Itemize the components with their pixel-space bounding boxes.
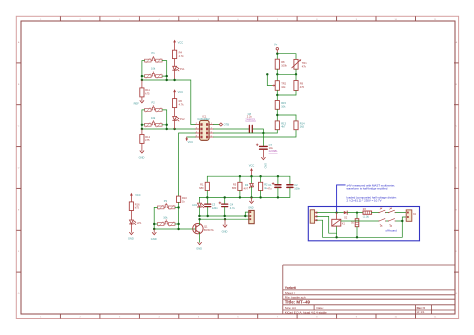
- svg-text:LD1: LD1: [192, 203, 197, 207]
- svg-text:R13: R13: [281, 121, 286, 125]
- svg-text:47u: 47u: [267, 187, 272, 191]
- junction dots block3: [153, 223, 155, 225]
- svg-text:REF: REF: [134, 101, 140, 105]
- junction dots block2: [141, 124, 143, 126]
- wire: [174, 59, 176, 67]
- svg-text:4.7k: 4.7k: [179, 102, 185, 106]
- op-amp IC1 body: [200, 120, 210, 140]
- svg-text:2N6822L: 2N6822L: [245, 118, 256, 122]
- wire block1 right rail: [162, 61, 167, 80]
- wire block2 right rail: [162, 110, 167, 129]
- svg-text:C4: C4: [230, 202, 234, 206]
- IC1 pin 1: [209, 124, 213, 126]
- svg-text:680: 680: [232, 186, 237, 190]
- svg-text:GND: GND: [128, 237, 134, 241]
- svg-text:S2: S2: [390, 208, 392, 210]
- svg-text:R8: R8: [281, 60, 285, 64]
- svg-text:VCC: VCC: [178, 40, 184, 44]
- ground GND below Q1: [198, 242, 202, 244]
- wire block3 bottom row to Q1 base: [154, 228, 196, 230]
- svg-text:120n: 120n: [212, 206, 218, 210]
- svg-text:R9: R9: [300, 81, 304, 85]
- svg-text:R1: R1: [200, 183, 204, 187]
- wire switches to X2 pin1: [396, 212, 406, 214]
- LED PL2: [173, 116, 177, 120]
- svg-text:Date:: Date:: [317, 306, 324, 310]
- resistor R4: [173, 50, 177, 58]
- connector X2: [406, 210, 412, 221]
- svg-text:GND: GND: [151, 237, 157, 241]
- svg-text:G: G: [18, 293, 20, 295]
- LED PL1: [173, 66, 177, 70]
- svg-text:R4: R4: [179, 50, 183, 54]
- wire feedback IC pin4 down to R10: [179, 133, 196, 196]
- wire block2 output row to IC pin3: [142, 128, 196, 130]
- wire relay contact row2: [341, 220, 379, 222]
- wire row A to connector: [199, 215, 248, 217]
- svg-text:3: 3: [196, 127, 197, 129]
- capacitor C8: [248, 125, 250, 132]
- junction node relay tap: [336, 212, 338, 214]
- resistor R1: [205, 182, 209, 190]
- wire R3 to switches: [372, 212, 379, 214]
- diode D3 zener: [251, 176, 253, 183]
- svg-text:Sheet: /: Sheet: /: [285, 291, 296, 295]
- wire VCC bus bottom network: [207, 176, 290, 185]
- switch S4: [386, 220, 388, 222]
- svg-text:1k5: 1k5: [300, 125, 305, 129]
- connector SV8: [249, 210, 254, 223]
- wire row below TR2 R9: [276, 90, 278, 95]
- svg-text:G: G: [455, 293, 457, 295]
- svg-text:Rev: 0: Rev: 0: [417, 306, 426, 310]
- svg-text:LP1: LP1: [137, 221, 142, 225]
- resistor R9: [295, 74, 297, 80]
- switch S2: [386, 212, 388, 214]
- junction dots rows: [198, 215, 200, 217]
- svg-text:R16: R16: [135, 202, 140, 206]
- wire block3 lower stubs: [154, 223, 157, 225]
- svg-text:GND: GND: [264, 163, 267, 169]
- svg-text:2x6N8L: 2x6N8L: [269, 149, 278, 153]
- svg-text:1: 1: [211, 123, 212, 125]
- svg-text:6: 6: [211, 131, 212, 133]
- potentiometer TR2 with wiper loop: [276, 74, 278, 80]
- IC1 pin 2: [195, 124, 199, 126]
- svg-text:100k: 100k: [281, 63, 287, 67]
- svg-text:S4: S4: [390, 226, 392, 228]
- wire row2 to X2 pin2: [396, 217, 406, 221]
- junction dots on bus: [239, 175, 241, 177]
- svg-text:4.7k: 4.7k: [179, 54, 185, 58]
- trimmer P1 lower pair: [145, 75, 152, 78]
- svg-text:VCC: VCC: [188, 140, 194, 144]
- IC1 pin 5: [209, 136, 213, 138]
- resistor R8: [275, 59, 279, 69]
- svg-text:7: 7: [211, 127, 212, 129]
- capacitor C7: [262, 133, 264, 146]
- wire bottom bus off-board: [323, 221, 403, 237]
- svg-text:10k: 10k: [151, 67, 156, 71]
- resistor R16: [129, 202, 133, 211]
- wire X1 pin1 row: [317, 212, 343, 214]
- wire block1 left rail: [142, 61, 145, 80]
- ground GND below zener: [251, 197, 253, 201]
- resistor R5: [239, 176, 241, 182]
- wire: [130, 211, 132, 221]
- trimmer P2 lower pair: [145, 123, 152, 126]
- svg-text:10k: 10k: [151, 116, 156, 120]
- svg-text:R11: R11: [145, 88, 150, 92]
- IC1 pin 6: [209, 132, 213, 134]
- svg-text:4: 4: [196, 131, 197, 133]
- svg-text:Size: A4: Size: A4: [285, 306, 296, 310]
- wire X1 pin2 loop: [317, 216, 336, 233]
- svg-text:C3: C3: [212, 203, 216, 207]
- svg-text:R15: R15: [281, 101, 286, 105]
- svg-text:Q1: Q1: [204, 224, 208, 228]
- svg-text:VCC: VCC: [135, 193, 141, 197]
- svg-text:V+: V+: [274, 42, 278, 46]
- wire row below R8 TR1: [276, 69, 278, 74]
- svg-text:47k: 47k: [302, 64, 307, 68]
- resistor R2: [260, 176, 262, 182]
- switch S3: [378, 220, 379, 221]
- wire block3 left rail: [154, 207, 157, 229]
- wire IC pin7 to C8: [213, 128, 249, 130]
- svg-text:10k: 10k: [281, 104, 286, 108]
- svg-text:off-board: off-board: [386, 229, 398, 233]
- svg-text:100n: 100n: [294, 187, 300, 191]
- wire: [174, 121, 176, 129]
- svg-text:5: 5: [211, 135, 212, 137]
- ground GND below C7: [262, 150, 264, 158]
- svg-text:R10: R10: [182, 196, 187, 200]
- svg-text:2: 2: [196, 123, 197, 125]
- ground GND below R12: [141, 143, 143, 150]
- wire block2 left rail: [142, 110, 145, 129]
- svg-text:k75: k75: [145, 138, 150, 142]
- svg-text:PL2: PL2: [180, 117, 185, 121]
- wire X1 pin3 drop: [317, 220, 322, 237]
- resistor R14: [294, 121, 298, 130]
- svg-text:C2: C2: [294, 183, 298, 187]
- transistor Q1: [193, 223, 203, 233]
- svg-text:k75: k75: [135, 206, 140, 210]
- svg-text:VCC: VCC: [249, 164, 255, 168]
- svg-text:4.7u: 4.7u: [230, 206, 236, 210]
- junction node C7 tap: [262, 132, 264, 134]
- node OTB output port: [213, 124, 219, 126]
- svg-text:8: 8: [196, 135, 197, 137]
- svg-text:10u: 10u: [269, 146, 274, 150]
- wire block1 output row to IC pin2: [142, 80, 196, 125]
- wire IC pin5 line: [213, 130, 296, 137]
- wire junction row R13 R14 tops: [276, 109, 278, 121]
- ground GND below LP1: [130, 225, 132, 233]
- power VCC column2: [174, 92, 176, 99]
- svg-text:P2: P2: [152, 100, 156, 104]
- svg-text:S1: S1: [380, 208, 382, 210]
- wire relay to bus: [336, 233, 338, 237]
- wire lower rail row: [199, 196, 290, 198]
- svg-text:Title: MT–49: Title: MT–49: [285, 300, 311, 305]
- svg-text:680: 680: [199, 186, 204, 190]
- wire IC pin6 line: [213, 132, 277, 134]
- IC1 pin 8: [195, 136, 199, 138]
- IC1 pin 3: [195, 128, 199, 130]
- wire V+ node row: [277, 54, 296, 60]
- LED LP1: [130, 220, 134, 224]
- junction dots block1: [141, 75, 143, 77]
- wire block3 right rail stub: [175, 206, 179, 208]
- svg-text:P3: P3: [164, 199, 168, 203]
- resistor R13: [275, 121, 279, 130]
- svg-text:Id: 1/1: Id: 1/1: [417, 310, 425, 314]
- svg-text:2 / (2+61.2) * 230V ≈ 10.7V: 2 / (2+61.2) * 230V ≈ 10.7V: [347, 199, 382, 203]
- capacitor C2: [287, 184, 293, 186]
- resistor R10: [177, 196, 181, 202]
- wire: [174, 71, 176, 80]
- svg-text:BC547A: BC547A: [204, 228, 214, 232]
- svg-text:TR2: TR2: [281, 81, 286, 85]
- svg-text:470: 470: [300, 85, 305, 89]
- power VCC at IC pin8: [187, 136, 196, 138]
- junction dots off-board: [335, 236, 337, 238]
- wire C8 to junction: [253, 129, 264, 133]
- LED LD1: [198, 197, 200, 203]
- svg-text:R5: R5: [233, 183, 237, 187]
- wire row B to connector: [200, 218, 249, 220]
- svg-text:CA3140EZ: CA3140EZ: [197, 118, 210, 121]
- diode D2: [344, 211, 347, 214]
- title block: [283, 265, 455, 314]
- power REF port: [141, 97, 143, 101]
- wire block1 lower stubs: [142, 75, 145, 77]
- svg-text:GND: GND: [248, 206, 254, 209]
- junction dots lower rail: [206, 196, 208, 198]
- svg-text:R6: R6: [179, 99, 183, 103]
- svg-text:S3: S3: [380, 226, 382, 228]
- svg-text:OTB: OTB: [224, 123, 230, 127]
- resistor R6: [173, 99, 177, 108]
- svg-text:P1: P1: [152, 51, 156, 55]
- off-board box: [308, 207, 419, 241]
- svg-text:R12: R12: [145, 135, 150, 139]
- connector X1: [310, 210, 314, 223]
- svg-text:PL1: PL1: [180, 67, 185, 71]
- wire: [174, 108, 176, 117]
- ground GND below row B: [224, 219, 226, 225]
- trimmer P3 lower pair: [157, 223, 164, 226]
- wire Q1 collector: [199, 219, 201, 225]
- IC1 pin 4: [195, 132, 199, 134]
- resistor R12: [141, 129, 143, 135]
- svg-text:R14: R14: [300, 121, 305, 125]
- svg-text:4V7: 4V7: [244, 186, 249, 190]
- svg-text:GND: GND: [196, 247, 202, 251]
- resistor R15: [276, 95, 278, 101]
- svg-text:waveform is half-bridge rectif: waveform is half-bridge rectified: [347, 187, 388, 191]
- svg-text:TR1: TR1: [302, 61, 307, 65]
- resistor R11: [141, 80, 143, 88]
- trimmer P2 upper pair: [145, 109, 152, 112]
- svg-text:D3: D3: [245, 183, 249, 187]
- wire connector pin1 feed: [245, 212, 249, 216]
- switch S1: [378, 212, 379, 213]
- svg-text:GND: GND: [139, 156, 145, 160]
- svg-text:GND: GND: [222, 230, 228, 234]
- note leader line: [337, 185, 346, 213]
- capacitor C4 polarized: [224, 197, 226, 203]
- junction node R4 tap: [356, 212, 358, 214]
- svg-text:Yorbeti: Yorbeti: [285, 286, 296, 290]
- resistor R3 horizontal: [363, 211, 372, 214]
- power VCC top column: [174, 42, 176, 50]
- svg-text:(1.1k): (1.1k): [363, 215, 369, 218]
- trimmer P1 upper pair: [145, 59, 152, 62]
- ground GND below block3: [153, 229, 155, 233]
- svg-text:C1: C1: [268, 183, 272, 187]
- trimmer TR1: [294, 59, 298, 69]
- IC1 pin 7: [209, 128, 213, 130]
- trimmer P3 upper pair: [157, 206, 164, 209]
- svg-text:4k7: 4k7: [281, 125, 286, 129]
- wire block2 lower stubs: [142, 124, 145, 126]
- wire R10 to block3 right rail: [178, 202, 180, 229]
- capacitor C3: [207, 197, 209, 203]
- svg-text:VCC: VCC: [178, 90, 184, 94]
- wire diode to R3: [347, 212, 363, 214]
- relay K1: [336, 213, 338, 220]
- svg-text:10k: 10k: [163, 216, 168, 220]
- capacitor C1 polarized: [277, 176, 279, 184]
- svg-text:k75: k75: [145, 92, 150, 96]
- svg-text:10k: 10k: [281, 85, 286, 89]
- resistor R4 vertical off-board: [356, 213, 358, 219]
- wire Q1 emitter to ground: [199, 233, 201, 243]
- svg-text:KiCad E.D.A. kicad 4.0.4-stab: KiCad E.D.A. kicad 4.0.4-stable: [285, 311, 327, 315]
